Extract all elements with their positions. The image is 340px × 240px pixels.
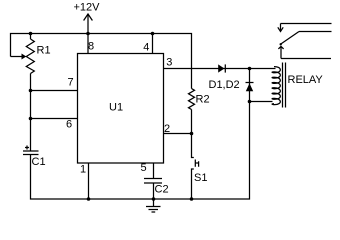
- svg-text:+12V: +12V: [74, 2, 101, 14]
- svg-text:5: 5: [141, 162, 147, 174]
- svg-text:4: 4: [143, 42, 149, 54]
- svg-text:C2: C2: [155, 184, 169, 196]
- svg-text:7: 7: [68, 77, 74, 89]
- svg-text:1: 1: [80, 164, 86, 176]
- svg-text:C1: C1: [32, 156, 46, 168]
- svg-text:3: 3: [166, 57, 172, 69]
- svg-text:S1: S1: [194, 172, 207, 184]
- svg-text:R2: R2: [196, 94, 210, 106]
- svg-text:8: 8: [88, 41, 94, 53]
- svg-text:U1: U1: [109, 102, 123, 114]
- svg-text:2: 2: [164, 123, 170, 135]
- svg-text:D1,D2: D1,D2: [209, 79, 240, 91]
- svg-text:RELAY: RELAY: [288, 74, 324, 86]
- svg-text:R1: R1: [37, 45, 51, 57]
- svg-text:6: 6: [66, 119, 72, 131]
